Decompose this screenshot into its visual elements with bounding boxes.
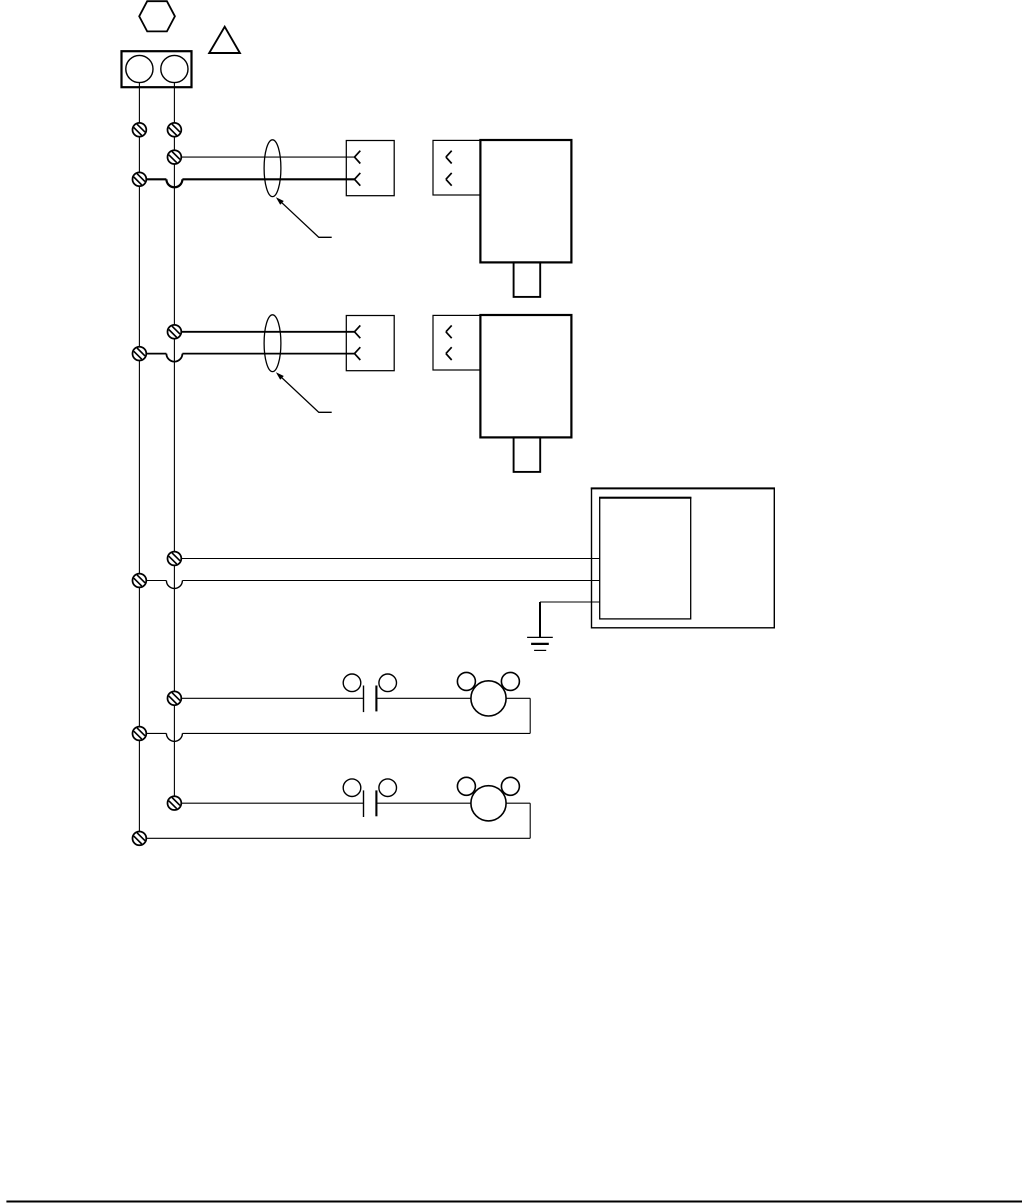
terminal left bus 1 — [133, 123, 147, 137]
plug pin left — [126, 55, 153, 82]
motor M1 small circle right — [501, 672, 519, 690]
wire: row3 bottom lead left of hop — [139, 580, 166, 582]
controller U1 outer case top edge — [591, 487, 775, 489]
motor M2 body — [471, 786, 506, 821]
pressure switch S1 right plate — [375, 686, 377, 712]
wire: row5 right drop — [529, 803, 531, 838]
pressure switch S1 left terminal circle — [343, 674, 361, 692]
pressure switch S2 left terminal circle — [343, 779, 361, 797]
terminal right bus 3 — [168, 325, 182, 339]
page footer rule — [6, 1201, 1022, 1203]
connector J1 pin 2 — [355, 173, 361, 186]
valve Y1 connector pin 1 — [446, 151, 452, 164]
wire hop over right bus (row3) — [166, 581, 182, 589]
pressure switch S2 left plate — [363, 790, 365, 817]
warning triangle — [209, 27, 240, 53]
wire hop over right bus (row2) — [166, 354, 182, 362]
valve Y2 connector pin 1 — [446, 325, 452, 338]
valve Y2 stem — [514, 437, 541, 472]
hexagon symbol — [139, 1, 175, 31]
pressure switch S2 right plate — [375, 790, 377, 816]
pressure switch S1 left plate — [363, 686, 365, 713]
wire: row5 lead to pressure switch — [174, 802, 363, 804]
terminal left bus 3 — [133, 347, 147, 361]
wire: row3 bottom lead to controller — [182, 580, 599, 582]
terminal right bus 6 — [168, 796, 182, 810]
controller U1 inner module — [600, 498, 691, 619]
wire hop over right bus (row1) — [166, 179, 182, 187]
solenoid valve Y1 body — [480, 140, 571, 262]
plug pin right — [161, 55, 188, 82]
valve Y1 connector pin 2 — [446, 173, 452, 186]
mating connector of valve Y1 — [433, 140, 480, 195]
cable grouping ellipse (row1) — [264, 140, 281, 197]
leader line to cable (row1) — [280, 201, 332, 238]
wire: row5 return to left bus — [139, 837, 530, 839]
wire: row1 bottom lead to connector J1 — [182, 178, 354, 180]
wire: ground branch from controller — [540, 601, 600, 603]
terminal left bus 6 — [133, 832, 147, 846]
wire: row1 bottom lead left of hop — [139, 178, 166, 180]
wire hop over right bus (row4) — [166, 733, 182, 741]
pressure switch S2 right terminal circle — [379, 779, 397, 797]
ground symbol bar 1 — [527, 636, 553, 638]
controller U1 outer case — [592, 488, 775, 628]
leader line to cable (row2) — [280, 376, 332, 413]
wire: row2 bottom lead left of hop — [139, 353, 166, 355]
terminal right bus 2 — [168, 150, 182, 164]
wire: ground stem — [539, 602, 541, 637]
power plug body — [122, 51, 192, 87]
wire: row3 top lead to controller — [174, 558, 599, 560]
valve Y1 stem — [514, 262, 541, 297]
wire: row1 top lead to connector J1 — [174, 156, 354, 158]
terminal right bus 4 — [168, 552, 182, 566]
wire: row4 return right of hop — [182, 732, 530, 734]
wire: row4 lead to pressure switch — [174, 697, 363, 699]
arrowhead (row2) — [276, 372, 284, 380]
motor M1 body — [471, 681, 506, 716]
solenoid valve Y2 body — [480, 315, 571, 437]
connector J1 body — [346, 141, 394, 196]
terminal right bus 1 — [168, 123, 182, 137]
terminal left bus 4 — [133, 574, 147, 588]
wire: row4 switch to motor M1 — [376, 697, 530, 699]
wire: right supply bus — [173, 83, 175, 804]
wire: row2 top lead to connector J2 — [174, 331, 354, 333]
connector J2 pin 2 — [355, 347, 361, 360]
connector J1 pin 1 — [355, 151, 361, 164]
ground symbol bar 2 — [531, 643, 549, 645]
connector J2 body — [346, 316, 394, 371]
motor M2 small circle left — [457, 777, 475, 795]
pressure switch S1 right terminal circle — [379, 674, 397, 692]
wire: row5 switch to motor M2 — [376, 802, 530, 804]
wire: left supply bus — [138, 83, 140, 839]
motor M2 small circle right — [501, 777, 519, 795]
terminal left bus 2 — [133, 172, 147, 186]
cable grouping ellipse (row2) — [264, 315, 281, 372]
terminal right bus 5 — [168, 691, 182, 705]
wire: row4 return to left bus — [139, 732, 166, 734]
connector J2 pin 1 — [355, 325, 361, 338]
terminal left bus 5 — [133, 727, 147, 741]
ground symbol bar 3 — [534, 649, 546, 651]
motor M1 small circle left — [457, 672, 475, 690]
wire: row4 right drop — [529, 698, 531, 733]
mating connector of valve Y2 — [433, 315, 480, 370]
valve Y2 connector pin 2 — [446, 347, 452, 360]
controller U1 inner module top edge — [599, 497, 691, 499]
arrowhead (row1) — [276, 197, 284, 205]
wire: row2 bottom lead to connector J2 — [182, 353, 354, 355]
